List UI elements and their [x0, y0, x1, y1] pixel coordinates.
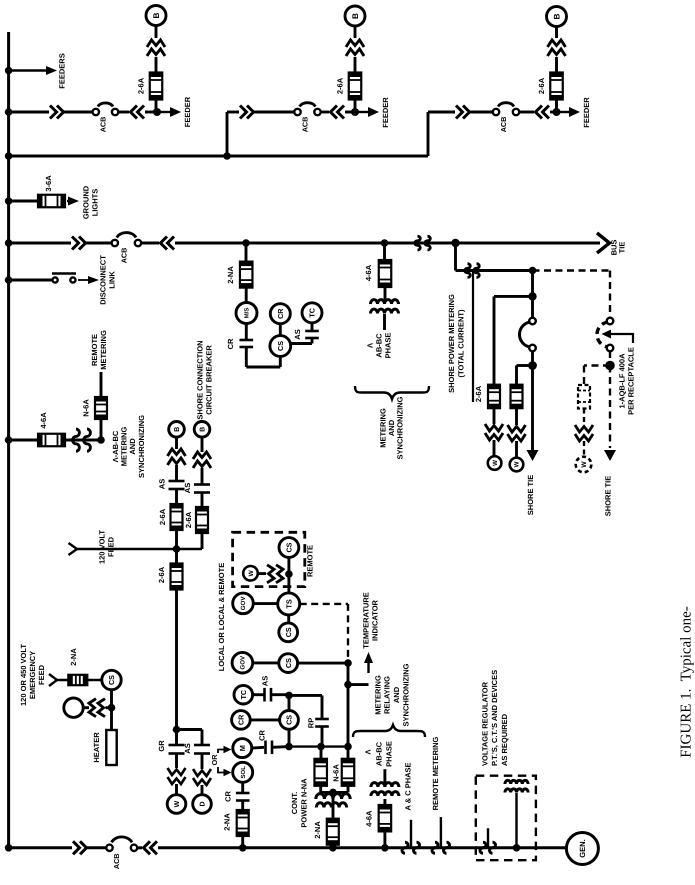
svg-text:SHORE TIE: SHORE TIE	[604, 476, 613, 516]
svg-text:CR: CR	[226, 338, 235, 349]
svg-text:2-6A: 2-6A	[336, 77, 345, 94]
svg-text:OR: OR	[210, 754, 219, 766]
svg-text:GROUND: GROUND	[82, 185, 91, 219]
svg-text:2-NA: 2-NA	[226, 266, 235, 284]
svg-text:AS REQUIRED: AS REQUIRED	[500, 713, 509, 766]
svg-text:2-NA: 2-NA	[223, 813, 232, 831]
svg-text:AS: AS	[158, 479, 167, 489]
svg-text:N-6A: N-6A	[82, 399, 91, 417]
svg-text:AS: AS	[293, 329, 302, 339]
svg-text:AB-BC: AB-BC	[375, 741, 384, 766]
svg-text:AS: AS	[260, 676, 269, 686]
svg-text:A & C PHASE: A & C PHASE	[404, 762, 413, 810]
svg-text:W: W	[581, 461, 588, 468]
svg-text:W: W	[514, 461, 521, 467]
svg-text:EMERGENCY: EMERGENCY	[28, 651, 37, 699]
svg-text:B: B	[351, 13, 360, 19]
svg-text:AS: AS	[183, 743, 192, 753]
svg-text:W: W	[492, 460, 499, 466]
svg-text:N-6A: N-6A	[332, 764, 341, 782]
svg-text:METERING: METERING	[99, 330, 108, 370]
svg-text:2-6A: 2-6A	[157, 566, 166, 583]
svg-text:SYNCHRONIZING: SYNCHRONIZING	[396, 396, 405, 459]
svg-text:AND: AND	[392, 686, 401, 703]
svg-text:POWER N-NA: POWER N-NA	[300, 778, 309, 828]
svg-text:INDICATOR: INDICATOR	[371, 599, 380, 641]
svg-text:TIE: TIE	[618, 242, 627, 254]
svg-text:FEED: FEED	[37, 664, 46, 685]
svg-text:CR: CR	[224, 791, 233, 802]
svg-text:1-AQB-LF 400A: 1-AQB-LF 400A	[618, 353, 627, 409]
svg-text:120 VOLT: 120 VOLT	[98, 530, 107, 564]
svg-text:D: D	[200, 801, 207, 806]
svg-text:GOV: GOV	[240, 655, 247, 670]
svg-text:SHORE TIE: SHORE TIE	[526, 475, 535, 515]
svg-text:CR: CR	[276, 308, 285, 319]
svg-text:FEEDER: FEEDER	[582, 97, 591, 128]
svg-text:REMOTE: REMOTE	[306, 545, 315, 577]
svg-text:4-6A: 4-6A	[365, 810, 374, 827]
svg-text:2-NA: 2-NA	[69, 648, 78, 666]
svg-text:3-6A: 3-6A	[44, 175, 53, 192]
svg-text:REMOTE METERING: REMOTE METERING	[431, 736, 440, 810]
svg-text:CS: CS	[107, 675, 116, 685]
svg-text:M/S: M/S	[244, 308, 251, 319]
svg-text:4-6A: 4-6A	[364, 264, 373, 281]
svg-text:SHORE POWER METERING: SHORE POWER METERING	[447, 294, 456, 393]
svg-text:W: W	[248, 569, 255, 576]
svg-text:2-6A: 2-6A	[184, 511, 193, 528]
svg-text:GOV: GOV	[240, 596, 247, 611]
svg-text:2-6A: 2-6A	[137, 77, 146, 94]
svg-text:SHORE CONNECTION: SHORE CONNECTION	[196, 340, 205, 419]
svg-text:LINK: LINK	[108, 271, 117, 289]
svg-text:M: M	[238, 745, 247, 751]
svg-text:CS: CS	[276, 341, 285, 351]
svg-text:VOLTAGE REGULATOR: VOLTAGE REGULATOR	[480, 681, 489, 766]
svg-text:RP: RP	[307, 718, 316, 728]
svg-text:ACB: ACB	[112, 854, 121, 870]
svg-text:REMOTE: REMOTE	[90, 334, 99, 366]
svg-text:ACB: ACB	[301, 117, 310, 133]
svg-text:CS: CS	[284, 658, 293, 668]
svg-text:PER RECEPTACLE: PER RECEPTACLE	[627, 347, 636, 415]
svg-text:SYNCHRONIZING: SYNCHRONIZING	[137, 415, 146, 478]
svg-text:FEEDER: FEEDER	[183, 96, 192, 127]
svg-text:CS: CS	[284, 542, 293, 552]
svg-text:PHASE: PHASE	[385, 741, 394, 767]
svg-text:Λ: Λ	[365, 343, 374, 348]
svg-text:B: B	[174, 427, 181, 432]
svg-text:HEATER: HEATER	[92, 732, 101, 763]
svg-text:FIGURE 1. Typical one-: FIGURE 1. Typical one-	[678, 606, 694, 758]
svg-text:AS: AS	[183, 483, 192, 493]
svg-text:TS: TS	[284, 599, 293, 609]
svg-text:4-6A: 4-6A	[39, 412, 48, 429]
svg-text:120 OR 450 VOLT: 120 OR 450 VOLT	[19, 644, 28, 706]
svg-text:METERING: METERING	[374, 675, 383, 715]
svg-text:CONT.: CONT.	[290, 792, 299, 815]
svg-text:P.T.'S, C.T.'S AND DEVICES: P.T.'S, C.T.'S AND DEVICES	[490, 670, 499, 766]
svg-text:ACB: ACB	[499, 117, 508, 133]
svg-text:CS: CS	[284, 627, 293, 637]
svg-text:LIGHTS: LIGHTS	[91, 189, 100, 217]
svg-text:TC: TC	[239, 690, 248, 700]
svg-text:ACB: ACB	[119, 248, 128, 264]
svg-text:GEN.: GEN.	[578, 839, 587, 858]
svg-text:FEED: FEED	[107, 536, 116, 557]
svg-text:LOCAL OR LOCAL & REMOTE: LOCAL OR LOCAL & REMOTE	[217, 563, 226, 671]
svg-text:CS: CS	[285, 715, 294, 725]
svg-text:GR: GR	[157, 740, 166, 752]
svg-text:PHASE: PHASE	[384, 333, 393, 359]
svg-text:2-6A: 2-6A	[537, 77, 546, 94]
svg-text:CR: CR	[258, 730, 267, 741]
svg-text:2-6A: 2-6A	[158, 508, 167, 525]
svg-text:RELAYING: RELAYING	[383, 676, 392, 714]
svg-text:W: W	[174, 800, 181, 807]
svg-text:CR: CR	[236, 714, 245, 725]
svg-text:SOL: SOL	[240, 766, 247, 779]
svg-text:B: B	[200, 427, 207, 432]
svg-text:AB-BC: AB-BC	[375, 333, 384, 358]
svg-text:2-NA: 2-NA	[313, 821, 322, 839]
svg-text:CIRCUIT BREAKER: CIRCUIT BREAKER	[205, 345, 214, 415]
svg-text:TEMPERATURE: TEMPERATURE	[362, 592, 371, 649]
svg-text:(TOTAL CURRENT): (TOTAL CURRENT)	[457, 309, 466, 377]
svg-text:FEEDERS: FEEDERS	[58, 53, 67, 88]
svg-text:FEEDER: FEEDER	[381, 97, 390, 128]
svg-text:DISCONNECT: DISCONNECT	[99, 255, 108, 305]
svg-text:ACB: ACB	[98, 117, 107, 133]
svg-text:Λ: Λ	[363, 749, 372, 754]
svg-text:TC: TC	[308, 308, 317, 318]
svg-text:B: B	[152, 12, 161, 18]
svg-text:B: B	[552, 13, 561, 19]
svg-text:2-6A: 2-6A	[474, 385, 483, 402]
svg-text:SYNCHRONIZING: SYNCHRONIZING	[402, 663, 411, 726]
